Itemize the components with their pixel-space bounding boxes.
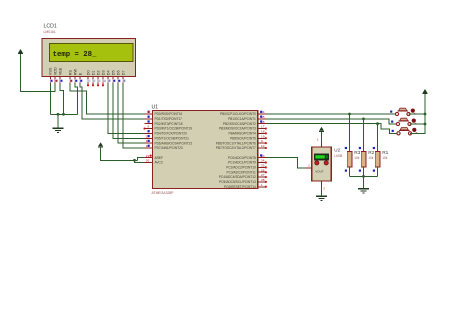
svg-text:2: 2 [308, 164, 310, 168]
push button 2 [391, 118, 417, 125]
svg-text:20: 20 [146, 159, 150, 163]
svg-text:PC4/ADC4/SDA/PCINT12: PC4/ADC4/SDA/PCINT12 [219, 175, 256, 179]
wire button1 to power stem [409, 113, 426, 115]
svg-text:AREF: AREF [155, 156, 164, 160]
svg-text:PD0/RXD/PCINT16: PD0/RXD/PCINT16 [155, 112, 183, 116]
resistor R3 10k [345, 114, 361, 176]
svg-text:RW: RW [73, 69, 77, 76]
wire LCD D5 to U1 PD5 [113, 84, 145, 139]
svg-text:27: 27 [261, 173, 265, 177]
svg-text:9: 9 [261, 139, 263, 143]
ground symbol under U2 [316, 196, 327, 200]
wire LCD D6 to U1 PD6 [118, 84, 145, 144]
power terminal +5V (above U2) [319, 127, 324, 132]
svg-text:26: 26 [261, 168, 265, 172]
junction R2 on PB1 line [362, 117, 365, 120]
LCD pin state squares and numbers [50, 79, 126, 86]
svg-text:D5: D5 [111, 70, 115, 75]
U1 right pins PB0-PB7 PC0-PC6 with numbers and state squares [216, 110, 267, 189]
junction resistor rail [362, 175, 365, 178]
junction R3 on PB0 line [348, 113, 351, 116]
U2 display strip [314, 154, 329, 160]
svg-text:PB0/ICP1/CLKO/PCINT0: PB0/ICP1/CLKO/PCINT0 [220, 112, 256, 116]
svg-text:PD2/INT0/PCINT18: PD2/INT0/PCINT18 [155, 122, 183, 126]
ground rail under LCD [50, 113, 77, 115]
LCD pin stubs [50, 77, 123, 85]
wire U1 PB0 to button 1 and R3 [266, 113, 397, 115]
svg-text:19: 19 [261, 134, 265, 138]
svg-text:PC2/ADC2/PCINT10: PC2/ADC2/PCINT10 [226, 166, 256, 170]
wire power to U2 pin1 [321, 132, 323, 141]
svg-text:E: E [78, 72, 82, 75]
svg-text:24: 24 [261, 159, 265, 163]
wire U1 PC0 to U2 VOUT [266, 158, 306, 168]
ground stem under resistors [363, 176, 365, 188]
U2 value label LM35 [334, 154, 342, 158]
wire to U1 AREF [138, 158, 145, 161]
svg-text:5: 5 [147, 125, 149, 129]
svg-text:PB6/TOSC1/XTAL1/PCINT6: PB6/TOSC1/XTAL1/PCINT6 [216, 141, 256, 145]
svg-text:VDD: VDD [54, 67, 58, 75]
svg-text:PD1/TXD/PCINT17: PD1/TXD/PCINT17 [155, 117, 183, 121]
svg-text:LM016L: LM016L [44, 30, 56, 34]
svg-text:D7: D7 [121, 70, 125, 75]
svg-text:PC3/ADC3/PCINT11: PC3/ADC3/PCINT11 [226, 170, 256, 174]
svg-text:ATMEGA328P: ATMEGA328P [152, 191, 175, 195]
resistor bottom rail [350, 175, 378, 177]
svg-text:PB4/MISO/PCINT4: PB4/MISO/PCINT4 [229, 132, 257, 136]
junction VEE at rail [62, 113, 65, 116]
wire U1 PB2 to button 3 and R1 [266, 124, 399, 134]
wire power to AREF/AVCC junction [101, 147, 138, 160]
wire LCD VEE to ground rail (jog) [60, 84, 63, 115]
U1 reference label [152, 104, 159, 110]
junction R1 on PB2 line [376, 122, 379, 125]
U2 adjustment knobs [315, 161, 329, 165]
ground stem under LCD [57, 114, 59, 128]
U1 value label ATMEGA328P [152, 191, 175, 195]
transistor U2 body (LM35 sensor) [312, 147, 332, 181]
wire LCD D7 to U1 PD7 [123, 84, 145, 148]
svg-text:VSS: VSS [49, 67, 53, 75]
svg-text:10: 10 [103, 79, 106, 83]
svg-text:U2: U2 [334, 148, 340, 153]
U1 left pins PD0-PD7 AREF AVCC with numbers and state squares [143, 110, 192, 165]
U2 VOUT label [315, 169, 324, 173]
LCD1 value label LM016L [44, 30, 56, 34]
resistor R1 10k [373, 124, 389, 177]
svg-text:PC0/ADC0/PCINT8: PC0/ADC0/PCINT8 [228, 156, 256, 160]
svg-text:3: 3 [323, 186, 325, 190]
svg-text:10k: 10k [354, 156, 360, 160]
wire button3 to power stem [410, 94, 425, 134]
svg-text:VOUT: VOUT [315, 169, 324, 173]
svg-text:PD6/AIN0/OC0A/PCINT22: PD6/AIN0/OC0A/PCINT22 [155, 141, 193, 145]
svg-text:LM35: LM35 [334, 154, 342, 158]
wire button2 to power stem [410, 123, 426, 125]
svg-text:18: 18 [261, 130, 265, 134]
svg-text:D4: D4 [106, 70, 110, 75]
svg-text:PB2/SS/OC1B/PCINT2: PB2/SS/OC1B/PCINT2 [223, 122, 256, 126]
wire LCD RW to ground rail (jog) [75, 84, 77, 115]
svg-text:LCD1: LCD1 [44, 24, 57, 30]
svg-text:25: 25 [261, 163, 265, 167]
junction AREF/AVCC [133, 159, 136, 162]
svg-text:1: 1 [317, 138, 319, 142]
LCD1 reference label [44, 24, 57, 30]
wire U1 PB1 to button 2 and R2 [266, 119, 398, 124]
svg-text:D0: D0 [86, 70, 90, 75]
svg-text:PC6/RESET/PCINT14: PC6/RESET/PCINT14 [224, 185, 256, 189]
power terminal +5V (below LCD, feeds AREF/AVCC) [98, 142, 103, 147]
LCD green screen [50, 44, 134, 62]
svg-text:PD3/INT1/OC2B/PCINT19: PD3/INT1/OC2B/PCINT19 [155, 127, 193, 131]
op-amp U1 body (ATMEGA328P box) [153, 111, 258, 189]
svg-text:U1: U1 [152, 104, 159, 110]
wire LCD E to U1 PD1 [80, 84, 145, 119]
push button 1 [390, 108, 416, 115]
LCD pin name labels (VSS VDD VEE RS RW E D0-D7) [49, 67, 126, 75]
LCD display text temp = 28_ [53, 51, 97, 59]
U2 reference label [334, 148, 340, 153]
svg-text:PB7/TOSC2/XTAL2/PCINT7: PB7/TOSC2/XTAL2/PCINT7 [216, 146, 256, 150]
svg-text:10: 10 [261, 144, 265, 148]
svg-text:D3: D3 [101, 70, 105, 75]
svg-text:10k: 10k [382, 156, 388, 160]
wire LCD VSS to ground rail [49, 84, 51, 115]
svg-text:D2: D2 [96, 70, 100, 75]
push button 3 [392, 128, 418, 135]
power terminal +5V (top left) [18, 49, 23, 54]
U2 pin 1 stub [317, 138, 321, 147]
svg-text:21: 21 [146, 154, 150, 158]
svg-text:PB5/SCK/PCINT5: PB5/SCK/PCINT5 [230, 136, 256, 140]
wire LCD RS to U1 PD0 [70, 84, 145, 115]
svg-text:PD7/AIN1/PCINT23: PD7/AIN1/PCINT23 [155, 146, 183, 150]
svg-text:temp = 28_: temp = 28_ [53, 51, 97, 59]
resistor R2 10k [359, 119, 375, 177]
svg-text:28: 28 [261, 178, 265, 182]
svg-text:D1: D1 [91, 70, 95, 75]
U2 pin 3 stub [322, 181, 326, 190]
svg-text:RS: RS [68, 69, 72, 75]
U2 pin 2 stub (VOUT) [306, 164, 312, 168]
wire LCD D4 to U1 PD4 [108, 84, 145, 134]
ground symbol under resistors [358, 189, 369, 193]
wire U2 pin3 to ground [321, 187, 323, 196]
junction ground stem [57, 113, 60, 116]
svg-text:10k: 10k [368, 156, 374, 160]
svg-text:PD5/T1/OC0B/PCINT21: PD5/T1/OC0B/PCINT21 [155, 136, 190, 140]
wire to U1 AVCC [135, 160, 145, 162]
junction button1 power [424, 113, 427, 116]
ground symbol under LCD [53, 128, 64, 132]
svg-text:17: 17 [261, 125, 265, 129]
wire power to LCD VDD [21, 54, 56, 92]
junction button2 power [424, 123, 427, 126]
svg-text:1: 1 [261, 183, 263, 187]
svg-text:PB1/OC1A/PCINT1: PB1/OC1A/PCINT1 [228, 117, 256, 121]
svg-text:PB3/MOSI/OC2A/PCINT3: PB3/MOSI/OC2A/PCINT3 [219, 127, 256, 131]
svg-text:AVCC: AVCC [155, 161, 164, 165]
LCD LM016L body [42, 39, 136, 77]
svg-text:D6: D6 [116, 70, 120, 75]
svg-text:PD4/T0/XCK/PCINT20: PD4/T0/XCK/PCINT20 [155, 132, 187, 136]
svg-text:PC5/ADC5/SCL/PCINT13: PC5/ADC5/SCL/PCINT13 [219, 180, 256, 184]
power terminal +5V (top right) [423, 89, 428, 94]
svg-text:PC1/ADC1/PCINT9: PC1/ADC1/PCINT9 [228, 161, 256, 165]
svg-text:VEE: VEE [59, 67, 63, 75]
